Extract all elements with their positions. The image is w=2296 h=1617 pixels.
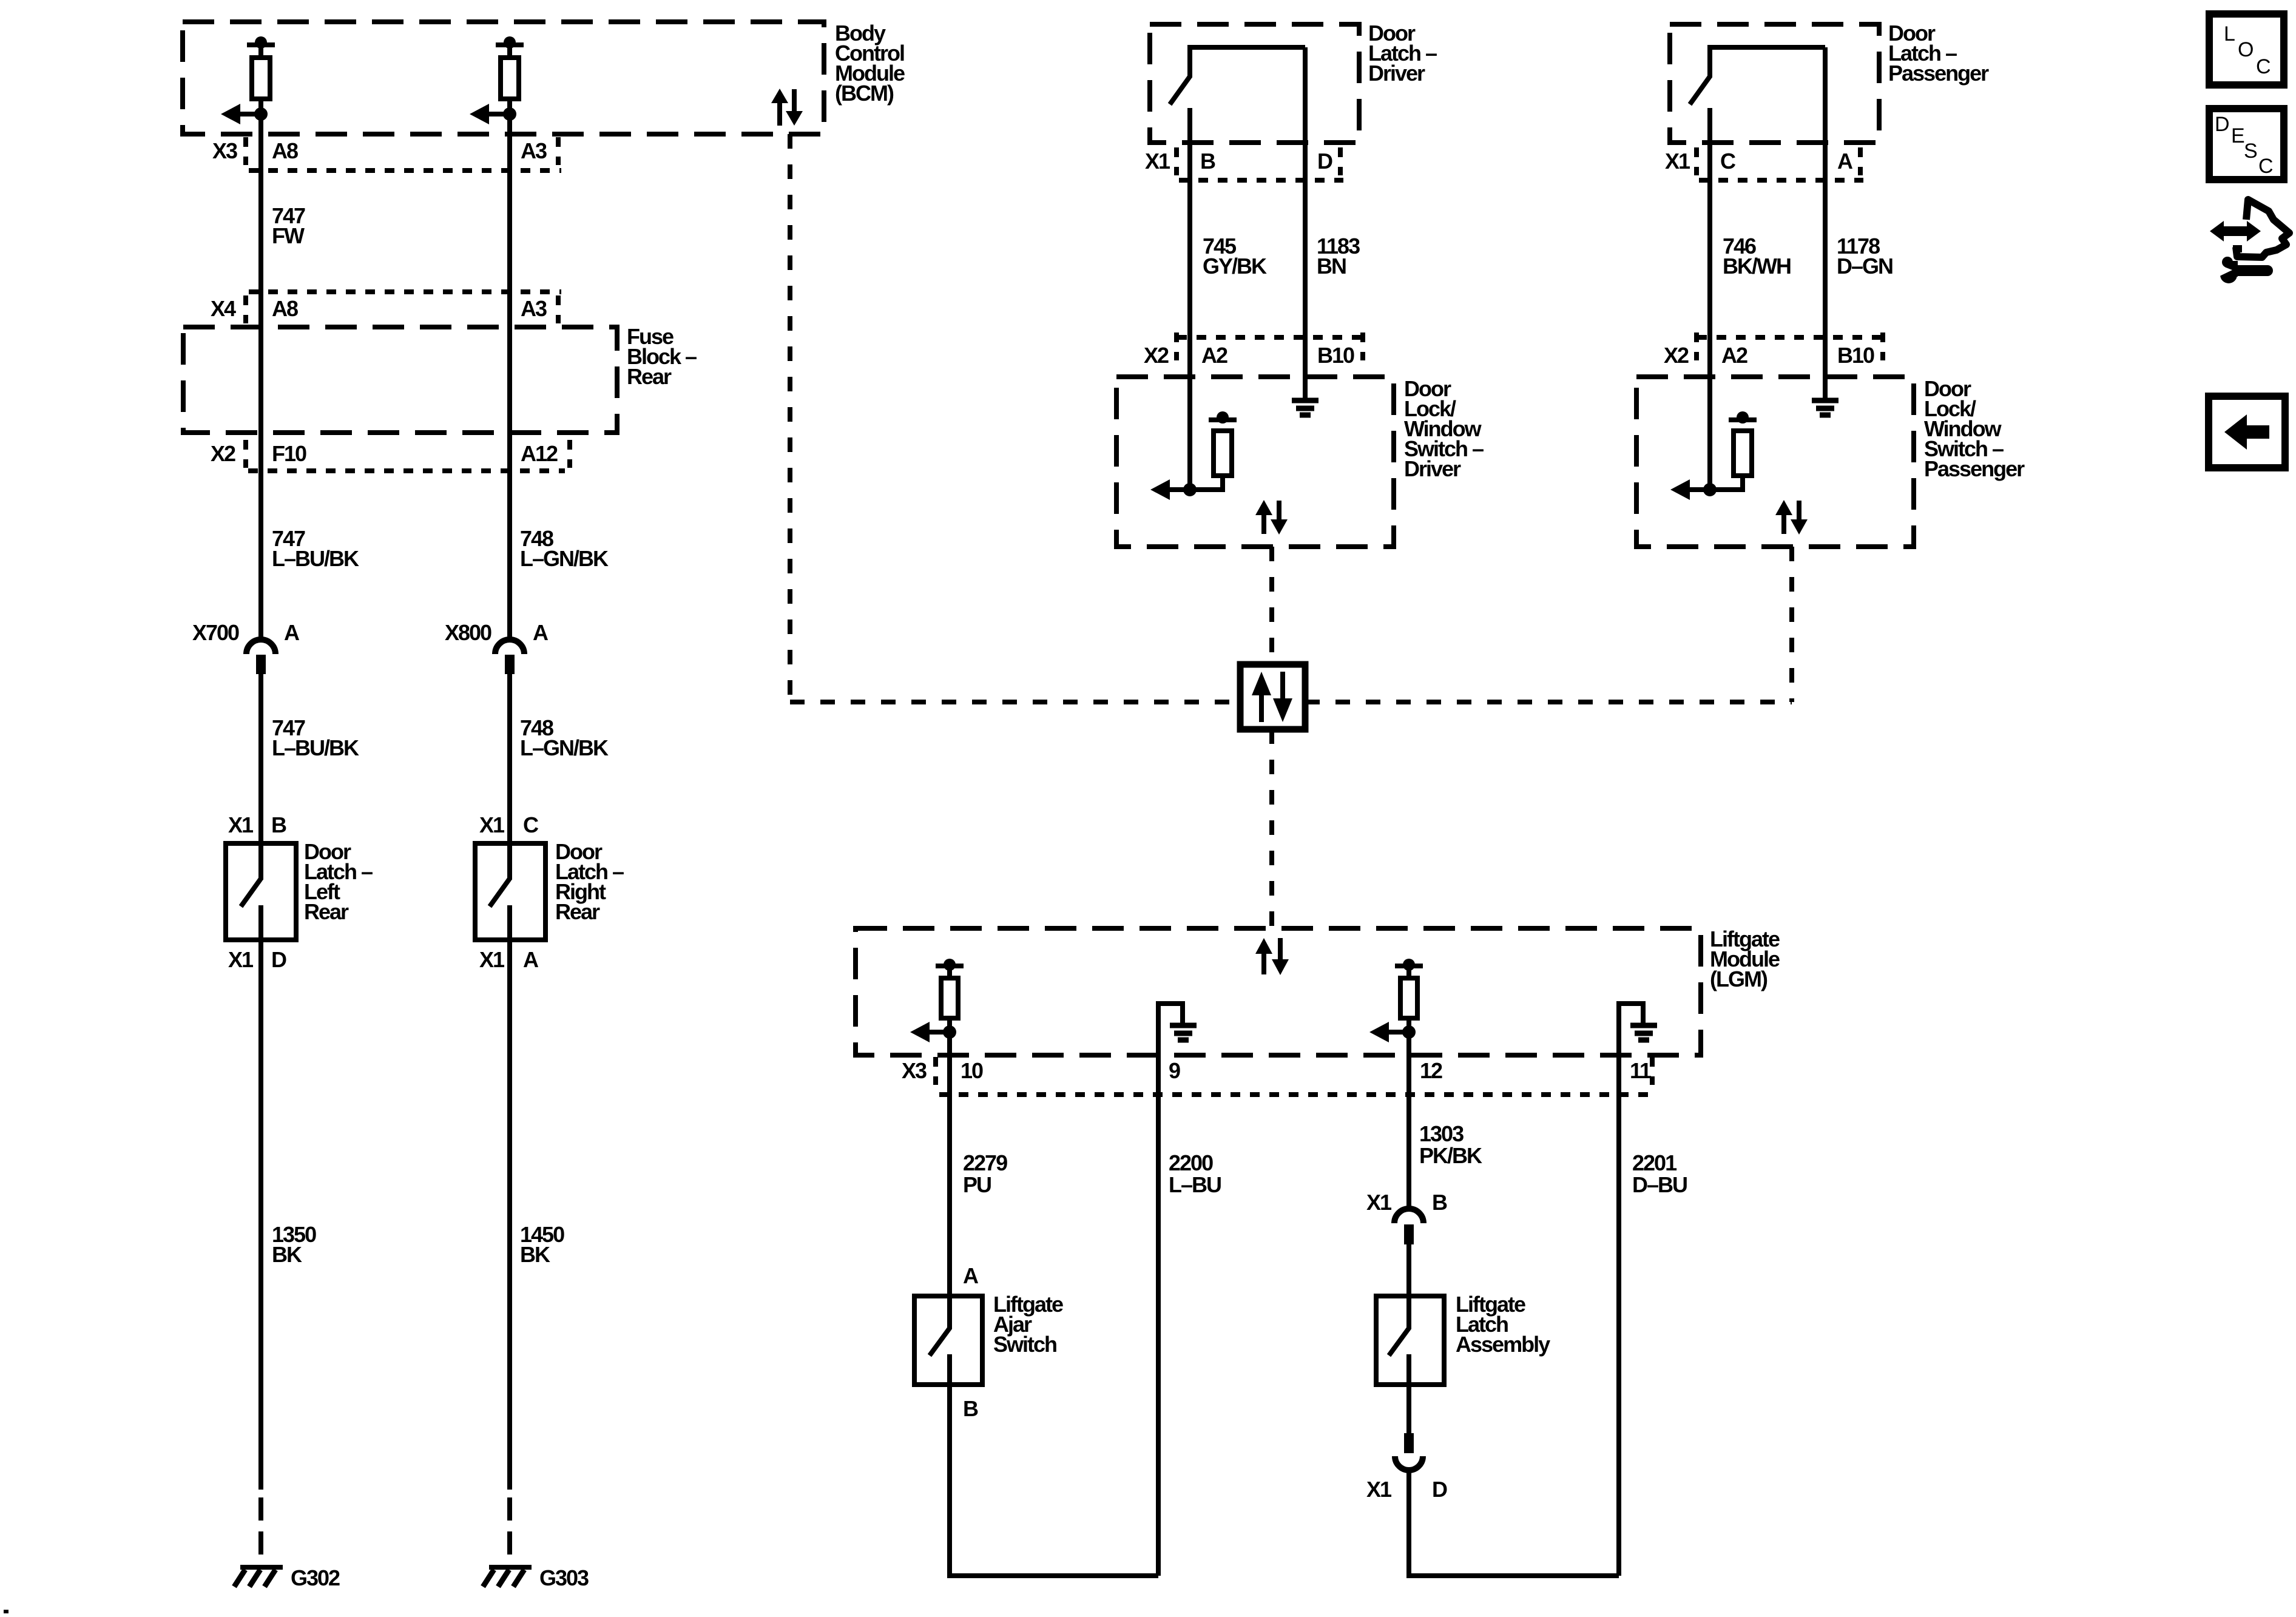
svg-text:2279: 2279	[963, 1150, 1007, 1175]
svg-text:12: 12	[1420, 1058, 1442, 1083]
BCM serial data up/down arrows	[771, 89, 803, 126]
back arrow box	[2209, 396, 2285, 468]
svg-text:A: A	[963, 1263, 979, 1288]
svg-text:O: O	[2238, 38, 2253, 61]
svg-text:X1: X1	[479, 812, 505, 837]
svg-text:A2: A2	[1201, 343, 1227, 368]
driver switch internal ground	[1292, 400, 1319, 415]
svg-text:X3: X3	[902, 1058, 927, 1083]
wire from latch assembly to X1 D connector	[1406, 1385, 1411, 1433]
connector X3 dotted ticks and line	[246, 137, 561, 170]
wire label 2279 PU	[963, 1150, 1007, 1197]
svg-text:A: A	[533, 620, 549, 645]
ground G302	[234, 1567, 283, 1587]
svg-text:L–BU/BK: L–BU/BK	[272, 546, 359, 571]
driver switch junction and signal arrow	[1150, 479, 1197, 500]
svg-text:GY/BK: GY/BK	[1203, 254, 1267, 279]
Liftgate Module name label	[1710, 927, 1780, 991]
wire label 747 FW	[272, 203, 305, 248]
svg-text:A: A	[1837, 149, 1853, 174]
Liftgate Latch Assembly name label	[1456, 1292, 1550, 1357]
wire 2201 D-BU (LGM pin 11 ground return)	[1616, 1001, 1621, 1576]
wire 1303 PK/BK (LGM pin 12 to liftgate latch assembly)	[1406, 966, 1411, 1210]
svg-text:2200: 2200	[1169, 1150, 1213, 1175]
serial data arrows in passenger switch	[1775, 500, 1808, 535]
connector X3 LGM dotted ticks and line	[936, 1057, 1656, 1095]
wire from X1 D to ground rail	[1409, 1470, 1619, 1576]
door latch left rear switch	[241, 843, 261, 940]
svg-text:A: A	[523, 947, 539, 972]
svg-text:B: B	[1200, 149, 1215, 174]
Door Latch - Passenger name label	[1888, 21, 1989, 86]
svg-text:B10: B10	[1837, 343, 1874, 368]
svg-text:(LGM): (LGM)	[1710, 967, 1768, 991]
Body Control Module (BCM) box	[183, 22, 824, 134]
driver switch pull-up resistor	[1190, 411, 1237, 490]
DESC hotspot box	[2209, 109, 2284, 180]
svg-text:X700: X700	[192, 620, 239, 645]
svg-text:E: E	[2231, 124, 2244, 147]
wire 747 FW (BCM output to fuse block and door latch left rear)	[258, 45, 263, 639]
Door Latch - Left Rear name label	[304, 839, 373, 924]
connector X1 pin D label (door latch left rear)	[228, 947, 286, 972]
Door Lock/Window Switch - Driver box	[1116, 377, 1394, 547]
serial data line from driver switch	[1269, 547, 1274, 664]
svg-text:C: C	[523, 812, 539, 837]
svg-text:X3: X3	[212, 138, 237, 163]
connector X1 pin B label (door latch left rear)	[228, 812, 286, 837]
Door Latch - Left Rear box	[226, 843, 296, 940]
svg-text:Driver: Driver	[1404, 456, 1461, 481]
wire label 1350 BK	[272, 1222, 316, 1267]
svg-text:C: C	[2256, 55, 2271, 78]
LGM internal ground pin 9	[1158, 1004, 1197, 1040]
svg-text:D–BU: D–BU	[1632, 1172, 1687, 1197]
Door Lock/Window Switch - Driver name label	[1404, 376, 1484, 481]
serial data line horizontal bus	[790, 700, 1792, 704]
svg-text:PK/BK: PK/BK	[1419, 1143, 1482, 1168]
door latch driver switch	[1170, 47, 1305, 104]
wire 745 GY/BK (latch B to window switch A2)	[1187, 108, 1192, 490]
svg-text:Passenger: Passenger	[1888, 61, 1989, 86]
Fuse Block - Rear name label	[627, 324, 697, 389]
svg-text:L–GN/BK: L–GN/BK	[520, 735, 609, 760]
passenger switch junction and signal arrow	[1670, 479, 1717, 500]
svg-text:S: S	[2244, 140, 2257, 163]
connector X1 pin A label (door latch right rear)	[479, 947, 539, 972]
wire 747 L-BU/BK lower segment	[258, 674, 263, 843]
connector X1 driver dotted ticks and line	[1177, 147, 1343, 180]
svg-text:Driver: Driver	[1368, 61, 1425, 86]
DESC letters	[2215, 113, 2273, 178]
wire from ajar switch B to ground rail	[950, 1385, 1158, 1576]
connector X3 row at LGM (pins 10, 9, 12, 11)	[902, 1058, 1652, 1083]
wire label 1183 BN	[1317, 234, 1360, 279]
connector X1 row passenger latch (pins C, A)	[1665, 149, 1853, 174]
svg-text:10: 10	[961, 1058, 983, 1083]
svg-text:A3: A3	[521, 296, 547, 321]
wire 746 BK/WH (latch C to window switch A2)	[1707, 108, 1712, 490]
svg-text:B: B	[271, 812, 286, 837]
svg-text:L–BU: L–BU	[1169, 1172, 1221, 1197]
wire 748 FW (BCM output to fuse block and door latch right rear)	[507, 45, 512, 639]
inline connector X700 pin A	[192, 620, 300, 674]
wire label 747 L-BU/BK	[272, 526, 359, 571]
connector X1 row driver latch (pins B, D)	[1145, 149, 1332, 174]
wire 1450 BK	[507, 940, 512, 1490]
svg-text:X2: X2	[1144, 343, 1169, 368]
LOC letters	[2224, 22, 2271, 78]
svg-text:D: D	[271, 947, 286, 972]
connector X2 dotted ticks and line	[246, 440, 570, 471]
wire 1183 BN (latch D to window switch ground B10)	[1303, 47, 1308, 398]
svg-text:BN: BN	[1317, 254, 1346, 279]
svg-text:PU: PU	[963, 1172, 991, 1197]
svg-text:X1: X1	[479, 947, 505, 972]
Liftgate Ajar Switch box	[914, 1296, 982, 1385]
LGM pull-up resistor pin 12	[1369, 959, 1423, 1042]
Liftgate Latch Assembly box	[1376, 1296, 1444, 1385]
svg-text:Switch: Switch	[993, 1332, 1056, 1357]
wire 2200 L-BU (LGM pin 9 ground return)	[1156, 1001, 1161, 1576]
svg-text:D: D	[1317, 149, 1332, 174]
wire label 1178 D-GN	[1837, 234, 1893, 279]
inline connector X800 pin A	[445, 620, 549, 674]
wire 1178 D-GN (latch A to window switch ground B10)	[1823, 47, 1828, 398]
liftgate latch assembly switch contacts	[1389, 1296, 1409, 1385]
svg-text:B10: B10	[1317, 343, 1354, 368]
Fuse Block - Rear box	[183, 327, 617, 433]
svg-text:BK: BK	[272, 1242, 302, 1267]
svg-text:X2: X2	[211, 441, 235, 466]
wire label 1303 PK/BK	[1419, 1121, 1482, 1168]
serial data link box arrows	[1252, 672, 1292, 722]
serial data line from data link box to LGM	[1269, 729, 1274, 928]
wire label 747 L-BU/BK (second)	[272, 715, 359, 760]
BCM output driver resistor for circuit 748	[470, 36, 524, 124]
door latch right rear switch	[490, 843, 510, 940]
Door Latch - Passenger box	[1670, 24, 1879, 143]
serial data link box	[1240, 664, 1305, 729]
svg-text:Rear: Rear	[304, 899, 349, 924]
svg-text:D: D	[2215, 113, 2229, 136]
svg-text:X2: X2	[1664, 343, 1689, 368]
svg-text:Passenger: Passenger	[1924, 456, 2025, 481]
svg-text:L: L	[2224, 22, 2235, 46]
liftgate ajar switch contacts	[930, 1296, 950, 1385]
back arrow	[2224, 414, 2269, 450]
connector X2 driver dotted ticks and line	[1177, 333, 1365, 360]
Door Latch - Right Rear name label	[555, 839, 624, 924]
svg-text:11: 11	[1630, 1058, 1652, 1083]
svg-text:G303: G303	[539, 1565, 589, 1590]
connector X4 row at fuse block (pins A8, A3)	[211, 296, 547, 321]
wire label 748 L-GN/BK	[520, 526, 609, 571]
connector X2 row at fuse block (pins F10, A12)	[211, 441, 558, 466]
inline connector X1 pin B (liftgate latch)	[1366, 1190, 1447, 1244]
svg-text:C: C	[2258, 155, 2273, 178]
Door Lock/Window Switch - Passenger name label	[1924, 376, 2025, 481]
svg-text:A12: A12	[521, 441, 558, 466]
wire label 2200 L-BU	[1169, 1150, 1221, 1197]
wire label 1450 BK	[520, 1222, 564, 1267]
svg-text:Rear: Rear	[627, 364, 672, 389]
Liftgate Ajar Switch name label	[993, 1292, 1063, 1357]
connector X1 pin C label (door latch right rear)	[479, 812, 539, 837]
svg-text:A: A	[284, 620, 300, 645]
svg-text:(BCM): (BCM)	[835, 81, 894, 106]
LGM internal ground pin 11	[1619, 1004, 1657, 1040]
dashed ground lead G302	[258, 1497, 263, 1568]
serial data line from passenger switch	[1789, 547, 1794, 702]
Door Latch - Driver box	[1150, 24, 1359, 143]
wire label 745 GY/BK	[1203, 234, 1267, 279]
ground G303	[483, 1567, 532, 1587]
svg-text:X800: X800	[445, 620, 491, 645]
connector X3 row at BCM (pins A8, A3)	[212, 138, 547, 163]
svg-text:A2: A2	[1721, 343, 1747, 368]
svg-text:C: C	[1720, 149, 1736, 174]
connector X2 passenger dotted ticks and line	[1697, 333, 1885, 360]
svg-text:1303: 1303	[1419, 1121, 1464, 1146]
Door Latch - Driver name label	[1368, 21, 1437, 86]
wire 748 L-GN/BK lower segment	[507, 674, 512, 843]
hotspot icon part outline	[2233, 200, 2289, 257]
wire label 746 BK/WH	[1723, 234, 1791, 279]
svg-text:X1: X1	[1366, 1190, 1392, 1215]
svg-text:X4: X4	[211, 296, 236, 321]
svg-text:D: D	[1432, 1477, 1447, 1502]
BCM output driver resistor for circuit 747	[221, 36, 275, 124]
svg-text:BK/WH: BK/WH	[1723, 254, 1791, 279]
LGM pull-up resistor pin 10	[910, 959, 964, 1042]
svg-text:A3: A3	[521, 138, 547, 163]
svg-text:L–GN/BK: L–GN/BK	[520, 546, 609, 571]
svg-text:X1: X1	[1366, 1477, 1392, 1502]
hotspot icon double arrow	[2210, 221, 2261, 241]
svg-text:X1: X1	[1145, 149, 1170, 174]
svg-text:Assembly: Assembly	[1456, 1332, 1550, 1357]
page artifact dot bottom left	[4, 1610, 8, 1613]
connector X2 row driver switch (pins A2, B10)	[1144, 343, 1354, 368]
Liftgate Module (LGM) box	[856, 928, 1701, 1055]
serial data line from BCM (vertical drop)	[788, 134, 792, 702]
wire 1303 to latch assembly	[1406, 1244, 1411, 1296]
svg-text:A8: A8	[272, 296, 298, 321]
svg-text:2201: 2201	[1632, 1150, 1677, 1175]
svg-text:X1: X1	[228, 947, 254, 972]
serial data arrows in LGM	[1255, 938, 1289, 975]
svg-text:BK: BK	[520, 1242, 550, 1267]
BCM name label	[835, 21, 905, 106]
connector X2 row passenger switch (pins A2, B10)	[1664, 343, 1874, 368]
svg-text:D–GN: D–GN	[1837, 254, 1893, 279]
svg-text:L–BU/BK: L–BU/BK	[272, 735, 359, 760]
Door Latch - Right Rear box	[475, 843, 545, 940]
svg-text:Rear: Rear	[555, 899, 600, 924]
serial data arrows in driver switch	[1255, 500, 1288, 535]
svg-text:9: 9	[1169, 1058, 1180, 1083]
svg-text:X1: X1	[228, 812, 254, 837]
svg-text:B: B	[963, 1396, 978, 1421]
wire 1350 BK	[258, 940, 263, 1490]
connector X1 passenger dotted ticks and line	[1697, 147, 1863, 180]
LOC hotspot box	[2209, 14, 2284, 85]
svg-text:G302: G302	[291, 1565, 340, 1590]
svg-text:F10: F10	[272, 441, 306, 466]
svg-text:A8: A8	[272, 138, 298, 163]
wire 2279 PU (LGM pin 10 to liftgate ajar switch A)	[947, 966, 952, 1296]
connector X4 dotted ticks and line	[246, 292, 561, 323]
svg-text:B: B	[1432, 1190, 1447, 1215]
hotspot icon wrench	[2213, 257, 2267, 283]
passenger switch internal ground	[1812, 400, 1838, 415]
door latch passenger switch	[1690, 47, 1825, 104]
svg-text:X1: X1	[1665, 149, 1690, 174]
passenger switch pull-up resistor	[1710, 411, 1757, 490]
Door Lock/Window Switch - Passenger box	[1636, 377, 1914, 547]
svg-text:FW: FW	[272, 223, 305, 248]
inline connector X1 pin D (liftgate latch)	[1366, 1433, 1447, 1502]
dashed ground lead G303	[507, 1497, 512, 1568]
wire label 2201 D-BU	[1632, 1150, 1687, 1197]
wire label 748 L-GN/BK (second)	[520, 715, 609, 760]
